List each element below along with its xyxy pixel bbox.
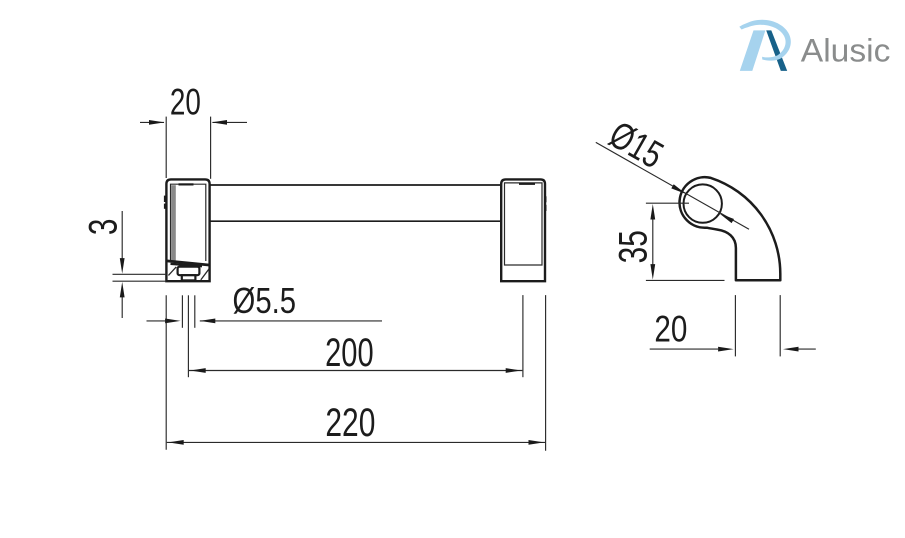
svg-text:35: 35 xyxy=(611,230,655,263)
svg-text:Alusic: Alusic xyxy=(801,33,891,69)
svg-text:220: 220 xyxy=(325,401,375,445)
svg-text:200: 200 xyxy=(325,331,374,375)
svg-text:20: 20 xyxy=(654,309,687,350)
svg-text:20: 20 xyxy=(170,82,201,123)
svg-text:3: 3 xyxy=(81,219,125,236)
svg-text:Ø5.5: Ø5.5 xyxy=(233,280,297,321)
